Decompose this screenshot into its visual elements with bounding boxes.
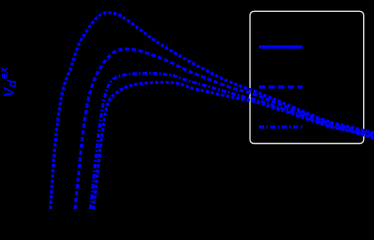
legend frame xyxy=(250,11,364,143)
legend sample solid xyxy=(259,45,303,48)
legend sample dash-dot xyxy=(259,125,303,128)
curve 1 (highest peak) xyxy=(51,13,374,209)
y-axis label V_d^ex xyxy=(0,66,19,97)
legend sample dashed xyxy=(259,85,303,88)
curve 4 (lowest peak) xyxy=(94,82,374,209)
curve 2 (second peak) xyxy=(75,49,374,209)
curve 3 (third peak) xyxy=(91,73,374,209)
